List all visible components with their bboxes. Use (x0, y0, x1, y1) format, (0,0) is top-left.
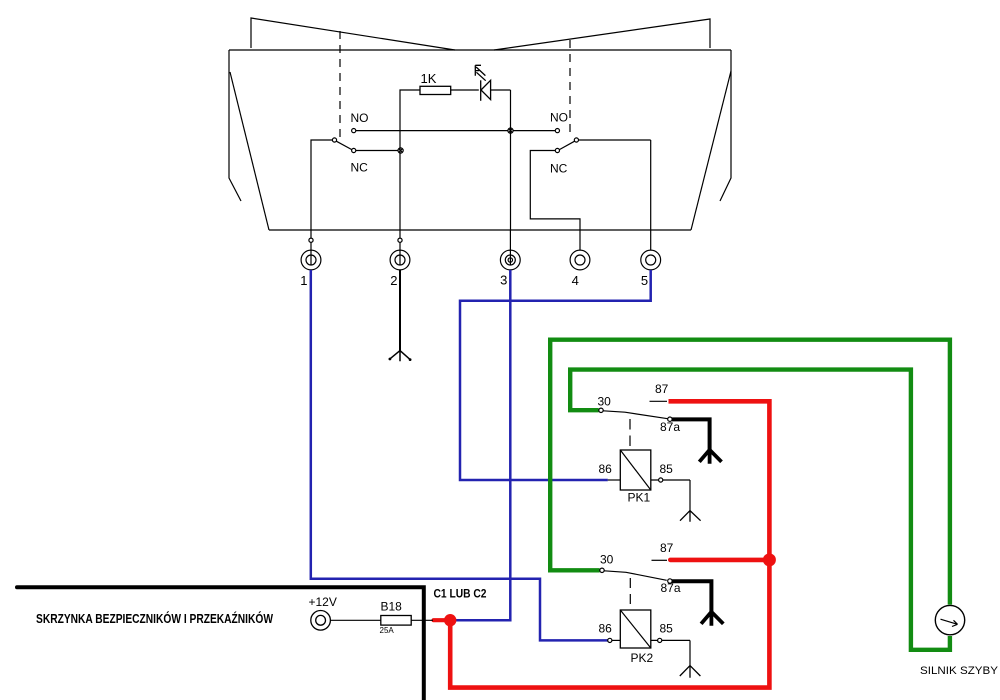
relay PK1 85 ground wire (689, 480, 691, 511)
wire red branch to PK2 87 (670, 558, 769, 563)
svg-text:30: 30 (600, 553, 614, 567)
pin 1 connector (301, 230, 321, 270)
switch SW-R lever (559, 141, 574, 149)
svg-text:87: 87 (655, 382, 669, 396)
svg-text:85: 85 (660, 622, 674, 636)
ground symbol pin 2 (389, 351, 412, 362)
wire black thick PK1 87a to ground (672, 419, 710, 450)
LED D1 triangle (481, 80, 491, 99)
relay PK1 actuator dashed link (629, 419, 631, 448)
relay PK2 lever (604, 571, 667, 581)
pin 4 connector (570, 230, 590, 270)
svg-text:5: 5 (641, 273, 648, 288)
fuse box border (17, 587, 424, 700)
ground symbol PK2 87a thick (701, 612, 723, 626)
svg-text:86: 86 (599, 622, 613, 636)
relay PK2 actuator dashed link (629, 578, 631, 608)
wire SW-R NC to pin4 (530, 151, 580, 231)
ground symbol PK1 87a thick (699, 450, 721, 464)
resistor R1 1K body (420, 86, 451, 94)
svg-text:+12V: +12V (309, 595, 337, 609)
switch SW-L lever (336, 141, 352, 149)
relay PK2 pin 30 contact (600, 568, 604, 572)
motor SILNIK SZYBY symbol (935, 605, 964, 634)
ground symbol PK2 85 (680, 666, 701, 678)
junction node NO/LED branch (508, 128, 513, 133)
switch housing left slant edge (230, 72, 269, 230)
switch housing bottom edge (269, 229, 691, 231)
wire blue pin1 to relay PK2 coil 86 (311, 270, 608, 641)
switch housing right slant edge (691, 71, 731, 230)
wire red stub from fuse (434, 618, 453, 622)
junction node NC/pin2 (398, 148, 403, 153)
switch housing right side (720, 50, 731, 201)
wire pin2 riser up to resistor (400, 90, 420, 230)
ground wire from pin 2 (399, 270, 401, 351)
switch housing body top edge (229, 49, 731, 51)
wire red +12V trunk fuse to relays 87 (450, 401, 769, 687)
fuse B18 body (381, 616, 411, 626)
svg-text:85: 85 (660, 462, 674, 476)
svg-text:PK2: PK2 (631, 651, 654, 665)
svg-text:30: 30 (598, 395, 612, 409)
wire black thick PK2 87a to ground (672, 581, 711, 612)
svg-text:SILNIK SZYBY: SILNIK SZYBY (920, 665, 999, 677)
relay PK1 pin 87 stub (650, 400, 668, 402)
switch SW-R NO contact (555, 129, 559, 133)
relay PK2 coil stub 85 with contact (651, 639, 690, 641)
relay PK1 coil stub 86 (608, 479, 621, 481)
wire blue pin3 to fuse junction C1 (452, 270, 510, 620)
svg-text:PK1: PK1 (628, 490, 651, 504)
wire resistor to LED (451, 89, 479, 91)
wire green PK2 pin30 to motor top (550, 340, 950, 605)
wire pin1 riser to left switch common (311, 140, 332, 230)
svg-text:SKRZYNKA BEZPIECZNIKÓW I PRZEK: SKRZYNKA BEZPIECZNIKÓW I PRZEKAŹNIKÓW (36, 611, 274, 626)
relay PK1 pin 87a contact (668, 417, 672, 421)
wire pin3 riser (510, 90, 512, 230)
svg-text:4: 4 (572, 273, 579, 288)
relay PK1 coil stub 85 with contact (651, 479, 690, 481)
svg-text:86: 86 (599, 462, 613, 476)
wire terminal to fuse (330, 619, 380, 621)
svg-text:NO: NO (351, 111, 369, 125)
svg-text:NC: NC (351, 161, 369, 175)
switch SW-R common contact (574, 138, 578, 142)
pin 5 connector (641, 230, 661, 270)
wire NO bus line (356, 130, 556, 132)
svg-text:87a: 87a (660, 420, 680, 434)
switch SW-L common contact (332, 138, 336, 142)
svg-text:1K: 1K (421, 71, 437, 86)
svg-text:2: 2 (390, 273, 397, 288)
LED D1 cathode bar (480, 80, 482, 101)
pin 3 connector (500, 230, 520, 270)
svg-text:25A: 25A (380, 626, 395, 635)
relay PK1 pin 30 contact (599, 408, 603, 412)
wire SW-L NC to pin2 riser (356, 150, 398, 152)
svg-text:B18: B18 (381, 600, 403, 614)
ground symbol PK1 85 (680, 511, 701, 522)
junction dot red trunk / PK2 branch (763, 553, 776, 566)
wire blue pin5 to relay PK1 coil 86 (460, 270, 651, 480)
svg-text:C1 LUB C2: C1 LUB C2 (434, 587, 487, 601)
switch SW-R NC contact (555, 148, 559, 152)
relay PK2 coil stub 86 with contact (608, 639, 621, 641)
switch SW-L NO contact (352, 129, 356, 133)
wire LED to pin3 riser (491, 89, 511, 91)
relay PK1 lever (603, 411, 668, 419)
relay PK2 pin 87a contact (668, 579, 672, 583)
svg-text:1: 1 (300, 273, 307, 288)
relay PK1 coil diagonal (620, 450, 651, 490)
relay PK1 coil box (620, 450, 651, 490)
svg-text:87: 87 (660, 541, 674, 555)
switch SW-L NC contact (352, 148, 356, 152)
switch housing left side (229, 50, 241, 201)
pin 2 connector (390, 230, 410, 270)
junction dot C1 red/blue (444, 614, 456, 626)
relay PK2 coil diagonal (620, 610, 651, 648)
rocker actuator left panel (251, 18, 455, 50)
dashed actuator link left (339, 31, 341, 137)
relay PK2 pin 87 stub (652, 559, 668, 561)
wire fuse to junction C1 (411, 619, 433, 621)
wire green PK1 pin30 to motor bottom (570, 370, 950, 650)
relay PK2 coil box (620, 610, 651, 648)
wire right switch common to pin5 riser (579, 140, 651, 230)
rocker actuator right panel (494, 19, 710, 50)
dashed actuator link right (569, 40, 571, 137)
relay PK2 85 ground wire (689, 640, 691, 666)
LED D1 emission arrows (475, 65, 485, 80)
svg-text:3: 3 (500, 273, 507, 288)
terminal +12V (311, 611, 331, 631)
svg-text:NC: NC (550, 162, 568, 176)
svg-text:NO: NO (550, 111, 568, 125)
